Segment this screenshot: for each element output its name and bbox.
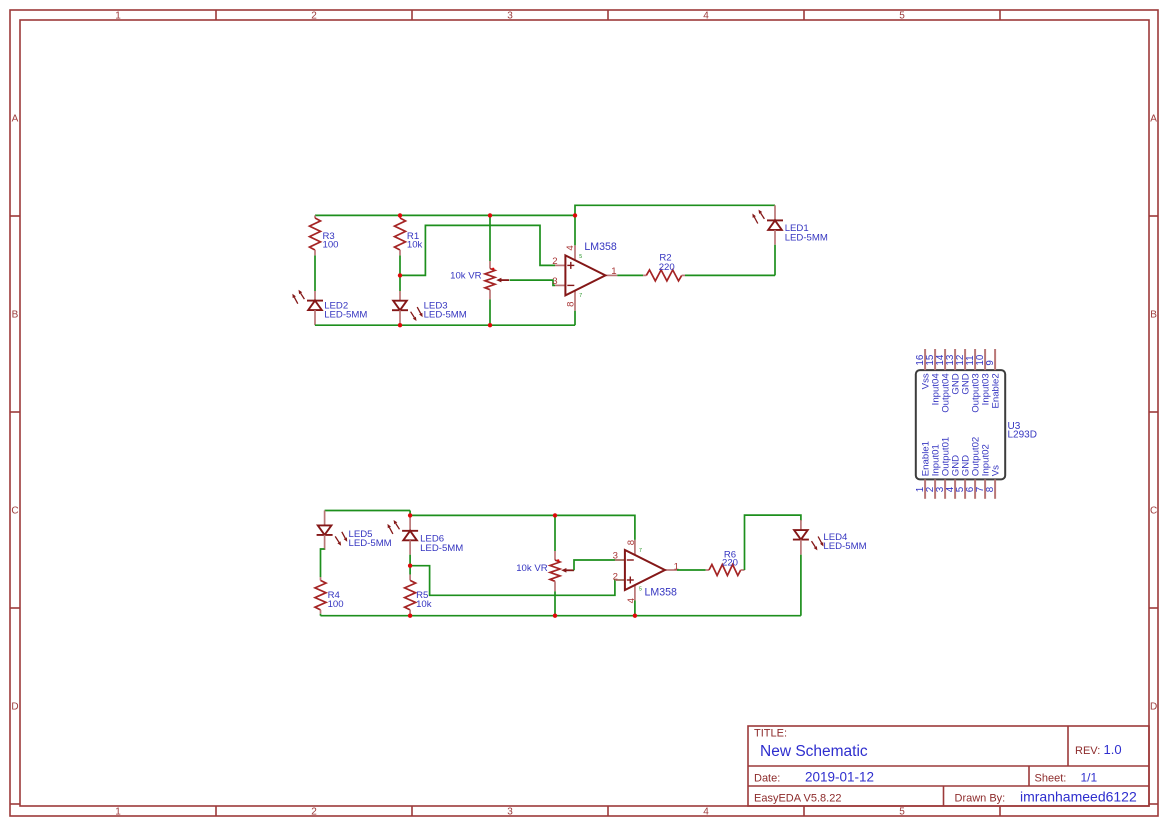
wire R3 to LED2 — [314, 255, 316, 291]
svg-text:D: D — [11, 702, 18, 713]
svg-text:5: 5 — [639, 587, 642, 593]
svg-text:2: 2 — [311, 10, 317, 21]
svg-text:2: 2 — [552, 256, 557, 267]
svg-text:2019-01-12: 2019-01-12 — [805, 770, 874, 785]
wire bottom rail top circuit — [315, 324, 575, 326]
svg-text:LED-5MM: LED-5MM — [785, 232, 828, 243]
svg-text:Drawn By:: Drawn By: — [955, 793, 1006, 805]
resistor R2 — [643, 274, 646, 276]
svg-text:LM358: LM358 — [584, 241, 616, 253]
junction VR2 bottom — [553, 614, 557, 618]
wire pin4 to top rail — [574, 215, 576, 245]
wire LED1 to output net — [774, 245, 776, 276]
pin 5 of U3 — [964, 479, 966, 498]
svg-text:Enable2: Enable2 — [991, 373, 1002, 408]
svg-text:5: 5 — [899, 10, 905, 21]
wire VR1 top — [489, 215, 491, 261]
pin 13 of U3 — [954, 349, 956, 370]
svg-text:8: 8 — [985, 486, 996, 492]
junction VR2 top — [553, 513, 557, 517]
junction VR1 bottom — [488, 323, 492, 327]
svg-text:1/1: 1/1 — [1081, 771, 1098, 785]
pin 14 of U3 — [944, 349, 946, 370]
wire pin8 to bottom rail — [574, 311, 576, 325]
wire VR2 to bottom rail — [554, 591, 556, 615]
junction pin4 net — [573, 213, 577, 217]
junction LED6 top — [408, 513, 412, 517]
resistor R3 — [314, 215, 316, 218]
svg-text:1: 1 — [611, 266, 616, 277]
pin 3 of U3 — [944, 479, 946, 498]
pin 2 of U3 — [934, 479, 936, 498]
potentiometer 10k VR top — [489, 261, 491, 269]
svg-text:B: B — [12, 310, 19, 321]
wire LED6 to R5 junction — [409, 555, 411, 575]
svg-text:2: 2 — [613, 572, 618, 583]
svg-text:4: 4 — [703, 10, 709, 21]
pin 4 of U3 — [954, 479, 956, 498]
svg-text:5: 5 — [899, 806, 905, 817]
junction R5 top — [408, 564, 412, 568]
svg-text:10k: 10k — [416, 599, 432, 610]
LED LED3 — [399, 291, 401, 301]
svg-text:10k VR: 10k VR — [450, 271, 482, 282]
junction R1 bottom — [398, 273, 402, 277]
svg-text:3: 3 — [507, 806, 513, 817]
wire R5 to bottom rail — [409, 614, 411, 616]
svg-text:A: A — [1150, 114, 1157, 125]
svg-text:7: 7 — [639, 548, 642, 554]
svg-text:3: 3 — [552, 276, 557, 287]
svg-text:Vs: Vs — [991, 465, 1002, 476]
pin 8 of U3 — [994, 479, 996, 498]
IC U3 L293D body — [916, 370, 1005, 479]
svg-text:3: 3 — [507, 10, 513, 21]
svg-text:1: 1 — [115, 806, 121, 817]
resistor R4 — [320, 577, 322, 580]
LED LED4 — [800, 520, 802, 530]
svg-text:7: 7 — [579, 293, 582, 299]
wire R1 to LED3 — [399, 255, 401, 291]
svg-text:C: C — [1150, 506, 1157, 517]
svg-text:5: 5 — [579, 254, 582, 260]
LED LED5 — [324, 511, 326, 526]
svg-text:A: A — [12, 114, 19, 125]
wire LED5 to R4 — [321, 549, 325, 577]
wire mid rail to pin8 — [410, 515, 635, 540]
svg-text:1.0: 1.0 — [1104, 742, 1122, 757]
pin 12 of U3 — [964, 349, 966, 370]
title block — [748, 726, 1149, 806]
wire R6 to LED4 — [745, 515, 801, 570]
svg-text:B: B — [1150, 310, 1157, 321]
svg-text:LED-5MM: LED-5MM — [823, 541, 866, 552]
wire LED4 to bottom rail — [800, 555, 802, 616]
LED LED2 — [314, 291, 316, 301]
svg-text:9: 9 — [985, 360, 996, 365]
svg-text:REV:: REV: — [1075, 745, 1100, 757]
wire LED5 LED6 top rail — [325, 510, 411, 512]
resistor R6 — [706, 569, 709, 571]
wire pin4 to bottom rail — [634, 601, 636, 616]
svg-text:4: 4 — [703, 806, 709, 817]
svg-text:4: 4 — [565, 245, 576, 251]
wire top rail net — [315, 214, 575, 216]
junction pin4 bottom — [633, 614, 637, 618]
svg-text:8: 8 — [565, 302, 576, 307]
junction LED3 bottom — [398, 323, 402, 327]
svg-text:Date:: Date: — [754, 773, 780, 785]
wire VR1 bottom — [489, 299, 491, 325]
pin 10 of U3 — [984, 349, 986, 370]
svg-text:10k VR: 10k VR — [516, 563, 548, 574]
svg-text:220: 220 — [659, 262, 675, 273]
pin 9 of U3 — [994, 349, 996, 370]
svg-text:Sheet:: Sheet: — [1035, 773, 1067, 785]
svg-text:LED-5MM: LED-5MM — [324, 309, 367, 320]
wire opamp output to R6 — [677, 569, 706, 571]
LED LED6 — [409, 516, 411, 531]
op-amp U2 LM358 bottom — [615, 559, 625, 561]
wire R5 junction to opamp pin2 — [410, 566, 625, 596]
pin 16 of U3 — [924, 349, 926, 370]
svg-text:EasyEDA V5.8.22: EasyEDA V5.8.22 — [754, 793, 841, 805]
junction R5 bottom — [408, 614, 412, 618]
wire R1 to opamp pin2 — [400, 225, 555, 275]
wire top rail to LED1 — [575, 205, 775, 215]
wire opamp output to R2 — [617, 274, 643, 276]
pin 6 of U3 — [974, 479, 976, 498]
svg-text:3: 3 — [613, 550, 618, 561]
svg-text:LED-5MM: LED-5MM — [420, 543, 463, 554]
wire R4 to bottom rail — [320, 614, 322, 616]
wire R2 to LED1 — [685, 274, 775, 276]
svg-text:L293D: L293D — [1008, 430, 1037, 441]
junction R1 top — [398, 213, 402, 217]
svg-text:LED-5MM: LED-5MM — [424, 309, 467, 320]
resistor R1 — [399, 215, 401, 218]
wire VR2 top — [554, 515, 556, 551]
svg-text:imranhameed6122: imranhameed6122 — [1020, 789, 1137, 805]
pin 1 of U3 — [924, 479, 926, 498]
svg-text:8: 8 — [626, 540, 637, 545]
wire VR1 wiper to opamp pin3 — [510, 280, 556, 285]
resistor R5 — [409, 575, 411, 581]
svg-text:D: D — [1150, 702, 1157, 713]
op-amp U1 LM358 top — [555, 264, 565, 266]
svg-text:TITLE:: TITLE: — [754, 728, 787, 740]
svg-text:New Schematic: New Schematic — [760, 743, 868, 760]
potentiometer 10k VR bottom — [554, 551, 556, 560]
svg-text:C: C — [11, 506, 18, 517]
wire LED6 top — [409, 511, 411, 518]
svg-text:100: 100 — [323, 240, 339, 251]
svg-text:220: 220 — [722, 558, 738, 569]
junction VR1 top — [488, 213, 492, 217]
pin 15 of U3 — [934, 349, 936, 370]
svg-text:10k: 10k — [407, 240, 423, 251]
pin 7 of U3 — [984, 479, 986, 498]
pin 11 of U3 — [974, 349, 976, 370]
LED LED1 — [774, 205, 776, 220]
wire VR2 wiper to opamp pin3 — [574, 560, 625, 570]
wire bottom rail bottom circuit — [321, 615, 801, 617]
svg-text:LED-5MM: LED-5MM — [349, 538, 392, 549]
svg-text:1: 1 — [115, 10, 121, 21]
svg-text:100: 100 — [328, 599, 344, 610]
svg-text:LM358: LM358 — [645, 586, 677, 598]
svg-text:2: 2 — [311, 806, 317, 817]
